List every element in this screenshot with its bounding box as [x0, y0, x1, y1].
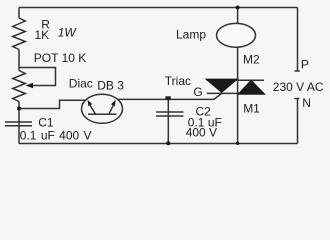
- triac right triangle: [239, 81, 264, 94]
- svg-text:Triac: Triac: [165, 74, 191, 88]
- wire diac to gate: [118, 98, 214, 100]
- svg-text:C1: C1: [38, 116, 54, 130]
- svg-text:400 V: 400 V: [186, 125, 217, 139]
- resistor R: [13, 18, 26, 50]
- svg-text:230 V AC: 230 V AC: [273, 80, 324, 94]
- wire resistor to pot: [18, 50, 20, 71]
- svg-text:POT 10 K: POT 10 K: [34, 51, 86, 65]
- node lamp top junction: [236, 6, 240, 10]
- capacitor C2 vertical lead: [167, 99, 169, 143]
- diac right arrow: [109, 105, 114, 114]
- wire gate diagonal: [214, 93, 222, 99]
- triac bottom rail: [207, 92, 264, 94]
- node M1 bottom junction: [236, 142, 239, 145]
- wire right rail upper: [297, 8, 299, 72]
- svg-text:Diac: Diac: [69, 77, 93, 91]
- svg-text:G: G: [193, 85, 202, 99]
- wire M1 lead: [237, 93, 239, 143]
- capacitor C1 vertical lead: [18, 109, 20, 144]
- node gate junction: [165, 96, 170, 99]
- svg-text:P: P: [301, 57, 309, 71]
- wire pot wiper loop: [19, 68, 56, 86]
- wire pot bottom: [18, 102, 20, 109]
- diac internal bar: [88, 113, 117, 115]
- capacitor C2 plates: [156, 112, 184, 116]
- wire M2 lead: [237, 8, 239, 24]
- wire left drop to resistor: [18, 8, 20, 19]
- svg-text:N: N: [302, 96, 311, 110]
- wire triac center: [237, 80, 239, 93]
- wire node to diac: [19, 100, 85, 108]
- svg-text:1W: 1W: [58, 26, 78, 40]
- triac left triangle: [207, 79, 237, 92]
- diac DB3 body: [82, 94, 123, 123]
- svg-text:0.1 uF 400 V: 0.1 uF 400 V: [20, 129, 92, 143]
- terminal N tick: [294, 98, 299, 100]
- svg-text:DB 3: DB 3: [97, 79, 124, 93]
- svg-text:1K: 1K: [35, 28, 50, 42]
- arrowhead diac left: [88, 100, 93, 106]
- node pot wiper junction: [17, 107, 21, 111]
- diac left arrow: [90, 105, 96, 114]
- svg-text:Lamp: Lamp: [176, 28, 206, 42]
- triac top rail: [207, 79, 264, 81]
- wire right rail lower: [297, 99, 299, 144]
- lamp: [217, 23, 256, 47]
- capacitor C1 plates: [5, 122, 32, 126]
- wire top rail: [19, 7, 298, 9]
- svg-text:M2: M2: [243, 52, 260, 66]
- arrowhead diac right: [111, 100, 116, 106]
- terminal P tick: [295, 70, 300, 72]
- potentiometer POT: [13, 71, 26, 102]
- wire bottom rail: [19, 143, 298, 145]
- svg-text:M1: M1: [243, 102, 260, 116]
- arrowhead pot wiper: [26, 83, 34, 88]
- node C2 bottom junction: [166, 141, 170, 145]
- wire lamp to triac: [237, 47, 239, 80]
